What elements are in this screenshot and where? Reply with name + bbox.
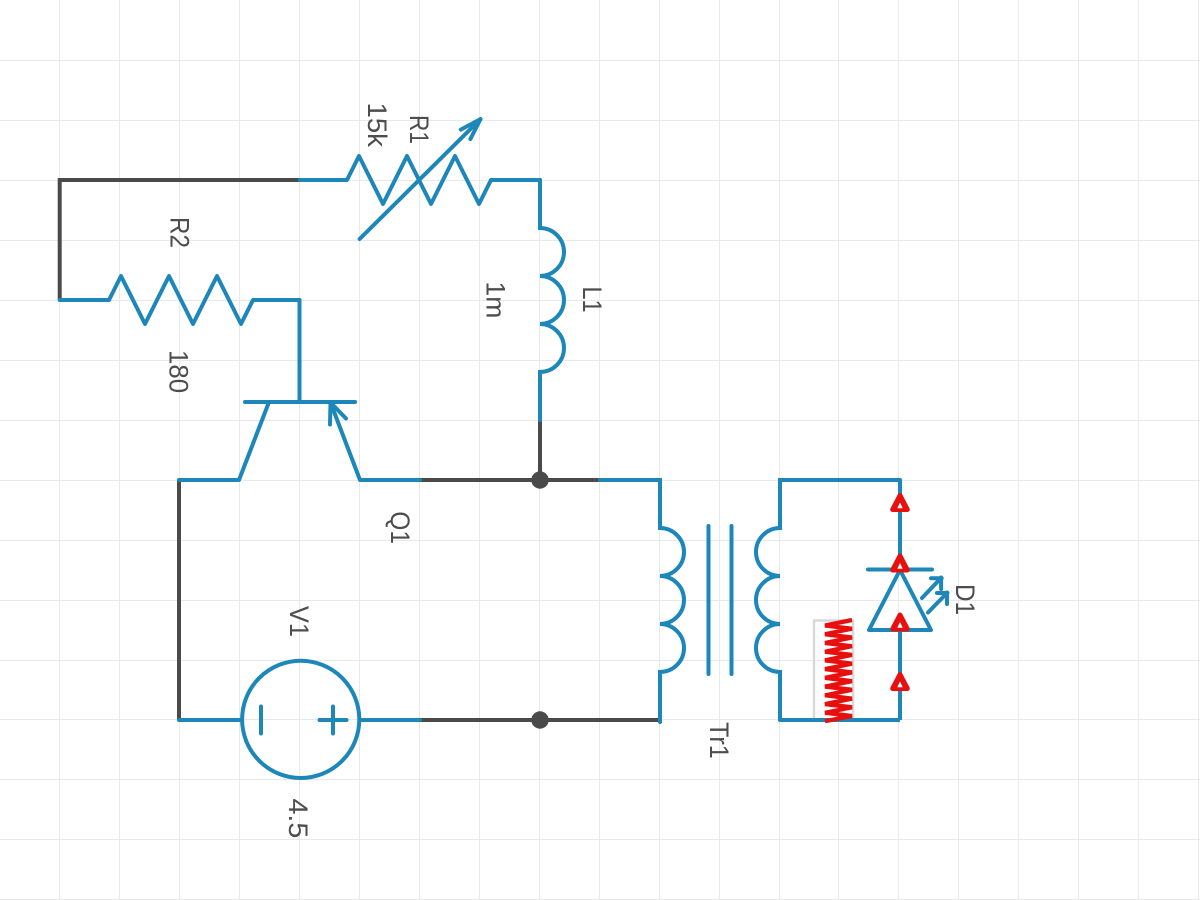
LED D1 bbox=[868, 570, 948, 631]
wire: L1 bottom to junction A bbox=[538, 420, 542, 480]
wire: bottom secondary bus bbox=[780, 718, 900, 722]
current arrow 1 bbox=[893, 496, 908, 510]
resistor R1 (variable, 15k) bbox=[300, 119, 540, 239]
svg-text:D1: D1 bbox=[950, 584, 979, 615]
inductor L1 (1m) bbox=[540, 180, 564, 420]
svg-text:V1: V1 bbox=[284, 606, 315, 637]
resistor R2 (180) bbox=[60, 276, 300, 324]
svg-text:15k: 15k bbox=[362, 103, 393, 148]
svg-text:R1: R1 bbox=[403, 115, 433, 144]
red filament coil bbox=[825, 620, 852, 721]
svg-text:Tr1: Tr1 bbox=[704, 722, 735, 759]
wire: bottom bus (through node B) bbox=[420, 718, 660, 722]
wire: secondary right column lower bbox=[898, 630, 902, 720]
svg-text:180: 180 bbox=[163, 350, 194, 393]
svg-text:1m: 1m bbox=[480, 282, 510, 319]
svg-text:L1: L1 bbox=[577, 287, 607, 313]
wire: top bus from left column to R1 bbox=[60, 180, 300, 300]
voltage source V1 (4.5) bbox=[179, 661, 420, 778]
transistor Q1 (PNP) bbox=[179, 300, 420, 480]
svg-text:Q1: Q1 bbox=[385, 511, 414, 543]
current arrow 3 bbox=[893, 615, 908, 629]
current arrow 2 bbox=[893, 556, 908, 570]
core lines bbox=[709, 526, 732, 674]
svg-text:R2: R2 bbox=[164, 217, 193, 248]
node B junction dot bbox=[531, 711, 548, 728]
primary winding bbox=[600, 480, 684, 722]
current arrow 4 bbox=[893, 675, 908, 689]
gray component box around red coil bbox=[814, 621, 853, 720]
wire: emitter column down left bbox=[177, 480, 181, 720]
node A junction dot bbox=[531, 471, 548, 488]
wire: collector row to transformer (through node A) bbox=[420, 478, 600, 482]
svg-text:4.5: 4.5 bbox=[283, 799, 313, 839]
wire: secondary right column upper bbox=[898, 480, 902, 570]
secondary winding bbox=[756, 480, 900, 720]
transformer Tr1 bbox=[600, 480, 900, 722]
